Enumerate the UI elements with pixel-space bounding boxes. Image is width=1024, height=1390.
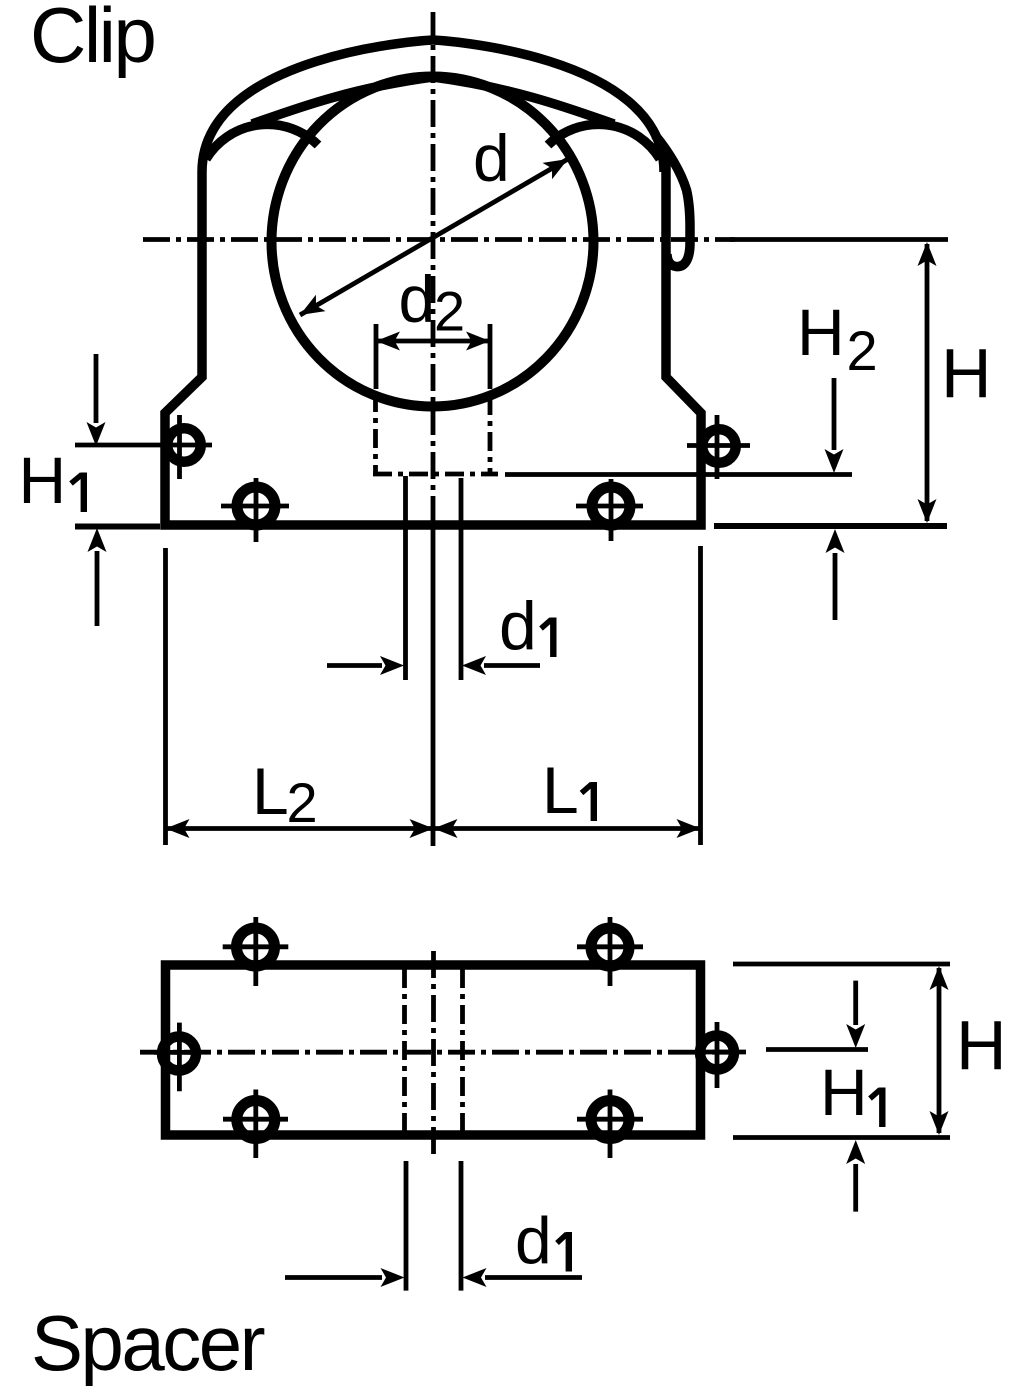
- d arrow lower head: [295, 295, 325, 324]
- H dim bottom arrowhead: [918, 499, 937, 523]
- H2 reference line: [505, 472, 852, 477]
- base bump left crosshair: [221, 478, 289, 542]
- svg-text:H: H: [941, 334, 992, 412]
- spacer H1 down arrow: [853, 981, 858, 1025]
- d2 left head: [376, 332, 400, 351]
- subscript 1 of d1 (spacer): [566, 1232, 572, 1272]
- svg-text:d: d: [399, 262, 436, 336]
- svg-text:d: d: [473, 121, 510, 195]
- spacer H top arrowhead: [930, 966, 949, 990]
- d2 dimension line: [376, 339, 490, 344]
- spacer hidden slot lines: [405, 969, 463, 1131]
- L left end head: [166, 819, 190, 838]
- outer arch + left side + base + right side outline: [165, 40, 701, 525]
- right ear arc: [548, 124, 660, 159]
- H dimension line: [925, 244, 930, 521]
- H dim top arrowhead: [918, 242, 937, 266]
- svg-text:d: d: [499, 588, 537, 664]
- vertical centerline of clip: [431, 12, 436, 505]
- screw hole base bump right: [592, 487, 630, 525]
- H2 down arrowhead: [825, 449, 844, 473]
- d1 left arrowhead (clip): [380, 656, 404, 675]
- screw hole base bump left: [237, 487, 275, 525]
- d2 extension tick left: [374, 324, 379, 389]
- svg-text:Spacer: Spacer: [31, 1299, 265, 1387]
- spacer H top reference line: [733, 962, 950, 967]
- svg-text:H: H: [820, 1055, 868, 1129]
- right arch (flat top): [433, 40, 664, 172]
- d1 arrows (clip): [327, 663, 382, 668]
- subscript 1 of L1: [591, 782, 597, 821]
- d2 extension tick right: [488, 324, 493, 389]
- svg-text:2: 2: [434, 280, 465, 343]
- L extension line left: [163, 548, 168, 845]
- L dimension line: [166, 826, 701, 831]
- H1 top reference line: [75, 443, 212, 448]
- vertical center extension line (solid, to L dims): [431, 505, 436, 846]
- H2 arrow (down): [832, 378, 837, 450]
- svg-text:L: L: [252, 754, 289, 828]
- left ear arc: [206, 124, 318, 159]
- H1 down arrow: [94, 354, 99, 423]
- spacer d1 right arrowhead: [463, 1268, 487, 1287]
- spacer d1 left arrowhead: [381, 1268, 405, 1287]
- spacer top bump right: [591, 928, 629, 966]
- svg-text:L: L: [542, 753, 579, 827]
- d2 right head: [466, 332, 490, 351]
- subscript 1 of H1 (clip): [81, 473, 87, 513]
- horizontal centerline of clip: [143, 237, 735, 242]
- spacer vertical centerline: [431, 951, 436, 1157]
- L extension line right: [698, 546, 703, 845]
- snap hook arm on right: [655, 135, 690, 267]
- screw hole right side bump: [702, 429, 736, 463]
- spacer H1 up arrowhead: [846, 1140, 865, 1164]
- right bump crosshair: [687, 415, 750, 479]
- pipe bore circle: [272, 77, 594, 407]
- hidden insert outline (dash-dot): [373, 393, 498, 474]
- spacer H1 up arrow: [853, 1164, 858, 1212]
- svg-text:H: H: [19, 443, 67, 517]
- spacer H bottom arrowhead: [930, 1111, 949, 1135]
- spacer H1 down arrowhead: [846, 1024, 865, 1048]
- inner arch arc: [252, 77, 614, 124]
- subscript 1 of H1 (spacer): [879, 1088, 885, 1128]
- svg-text:2: 2: [847, 319, 878, 382]
- L1 dim left arrowhead at centerline: [434, 819, 458, 838]
- svg-text:Clip: Clip: [30, 0, 154, 79]
- spacer right side bump: [700, 1036, 734, 1070]
- slot edge lines: [406, 476, 462, 680]
- svg-text:d: d: [515, 1204, 552, 1278]
- left bump crosshair vertical: [177, 415, 182, 479]
- spacer bottom bump right: [591, 1101, 629, 1139]
- H1 bottom reference line: [75, 524, 160, 530]
- spacer d1 arrows: [285, 1275, 382, 1280]
- svg-text:2: 2: [287, 771, 318, 834]
- spacer horizontal centerline: [140, 1050, 740, 1055]
- d arrow upper head: [542, 151, 572, 180]
- dimension d diagonal line: [300, 159, 568, 315]
- base bump right crosshair: [576, 479, 643, 541]
- d1 right arrowhead (clip): [462, 656, 486, 675]
- horizontal centerline solid right extension (H dim reference): [730, 237, 948, 242]
- screw hole left side bump: [167, 428, 201, 462]
- spacer bottom bump left: [237, 1101, 275, 1139]
- svg-text:H: H: [956, 1006, 1007, 1084]
- H2 up arrowhead: [826, 529, 845, 553]
- spacer body rectangle: [166, 965, 701, 1135]
- H1 down arrowhead: [87, 422, 106, 446]
- spacer H dimension arrow: [937, 968, 942, 1133]
- spacer top bump left: [237, 928, 275, 966]
- L right end head: [677, 819, 701, 838]
- H1 up arrowhead: [88, 528, 107, 552]
- svg-text:H: H: [797, 295, 845, 369]
- spacer d1 extension lines: [406, 1161, 461, 1291]
- base bottom reference extension right: [714, 523, 947, 529]
- H2 arrow (up, below base): [833, 553, 838, 620]
- spacer H bottom reference line: [733, 1135, 950, 1140]
- spacer left side bump: [162, 1037, 196, 1071]
- spacer H1 top reference (centerline extension): [766, 1047, 868, 1052]
- H1 up arrow: [95, 551, 100, 626]
- L2 dim right arrowhead at centerline: [410, 819, 434, 838]
- subscript 1 of d1 (clip): [550, 618, 556, 658]
